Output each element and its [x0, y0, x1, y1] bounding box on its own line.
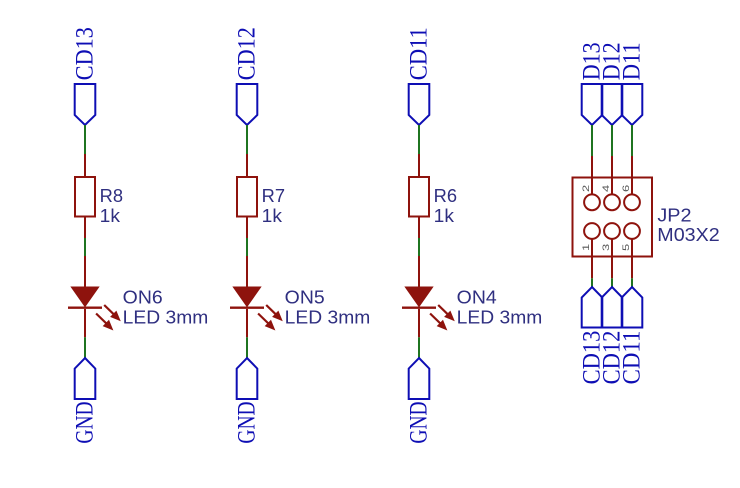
svg-text:JP2: JP2 — [657, 205, 691, 225]
LED ON4 light arrow 1 — [438, 305, 453, 320]
svg-text:1k: 1k — [434, 206, 455, 226]
pin wire ON4 anode — [418, 256, 420, 287]
GND flag (CD13 column) — [75, 358, 96, 399]
LED ON4 cathode bar — [402, 307, 436, 309]
pin wire R7 pin 1 — [246, 154, 248, 177]
wire net GND column CD12 — [246, 337, 248, 358]
pin wire R6 pin 1 — [418, 154, 420, 177]
resistor R7 — [237, 177, 257, 217]
wire net GND column CD11 — [418, 337, 420, 358]
resistor R8 — [75, 177, 95, 217]
svg-text:ON5: ON5 — [285, 288, 325, 308]
svg-text:D11: D11 — [619, 42, 646, 80]
svg-text:CD11: CD11 — [619, 331, 646, 385]
wire net CD12 (below JP2) — [611, 278, 613, 287]
LED ON4 light arrow 2 — [430, 314, 446, 330]
JP2 pin circle 5 — [624, 223, 640, 239]
svg-text:4: 4 — [601, 185, 612, 192]
svg-text:GND: GND — [233, 401, 260, 443]
pin wire JP2 pin 2 — [591, 156, 593, 195]
LED ON5 light arrow 1 — [266, 305, 281, 320]
connector JP2 outline — [573, 178, 653, 257]
pin wire JP2 pin 1 — [591, 239, 593, 278]
net flag D11 — [622, 84, 643, 125]
svg-text:M03X2: M03X2 — [657, 225, 719, 245]
wire net GND column CD13 — [84, 337, 86, 358]
svg-text:LED 3mm: LED 3mm — [457, 308, 543, 328]
JP2 pin circle 2 — [584, 194, 600, 210]
LED ON5 light arrow 2 — [258, 314, 274, 330]
JP2 pin circle 6 — [624, 194, 640, 210]
svg-text:R7: R7 — [262, 186, 285, 206]
pin wire ON6 anode — [84, 256, 86, 287]
GND flag (CD12 column) — [237, 358, 258, 399]
LED ON6 triangle — [71, 287, 98, 307]
pin wire ON5 cathode — [246, 309, 248, 337]
LED ON6 cathode bar — [68, 307, 102, 309]
net flag CD12 (bottom) — [602, 287, 623, 328]
pin wire JP2 pin 5 — [631, 239, 633, 278]
JP2 pin circle 3 — [604, 223, 620, 239]
svg-text:ON4: ON4 — [457, 288, 497, 308]
net flag CD13 (top) — [75, 84, 96, 125]
wire net CD11 to R6 — [418, 125, 420, 154]
pin wire JP2 pin 4 — [611, 156, 613, 195]
svg-text:5: 5 — [621, 244, 632, 251]
pin wire R6 pin 2 — [418, 217, 420, 239]
net flag D12 — [602, 84, 623, 125]
wire net CD13 (below JP2) — [591, 278, 593, 287]
pin wire JP2 pin 6 — [631, 156, 633, 195]
LED ON6 light arrow 1 — [104, 305, 119, 320]
svg-text:1k: 1k — [100, 206, 121, 226]
svg-text:ON6: ON6 — [123, 288, 163, 308]
wire net R7 to ON5 — [246, 238, 248, 256]
JP2 pin circle 4 — [604, 194, 620, 210]
wire net R8 to ON6 — [84, 238, 86, 256]
svg-text:GND: GND — [71, 401, 98, 443]
resistor R6 — [409, 177, 429, 217]
wire net CD12 to R7 — [246, 125, 248, 154]
svg-text:R8: R8 — [100, 186, 123, 206]
svg-text:1k: 1k — [262, 206, 283, 226]
svg-text:6: 6 — [621, 185, 632, 192]
svg-text:CD11: CD11 — [406, 27, 433, 80]
pin wire ON4 cathode — [418, 309, 420, 337]
wire net CD13 to R8 — [84, 125, 86, 154]
svg-text:3: 3 — [601, 244, 612, 251]
svg-text:CD13: CD13 — [72, 27, 99, 80]
LED ON5 triangle — [233, 287, 260, 307]
pin wire R8 pin 1 — [84, 154, 86, 177]
JP2 pin circle 1 — [584, 223, 600, 239]
net flag D13 — [582, 84, 603, 125]
wire net CD11 (below JP2) — [631, 278, 633, 287]
GND flag (CD11 column) — [409, 358, 430, 399]
net flag CD13 (bottom) — [582, 287, 603, 328]
svg-text:LED 3mm: LED 3mm — [285, 308, 371, 328]
net flag CD12 (top) — [237, 84, 258, 125]
wire net R6 to ON4 — [418, 238, 420, 256]
pin wire R7 pin 2 — [246, 217, 248, 239]
svg-text:1: 1 — [581, 244, 592, 251]
svg-text:LED 3mm: LED 3mm — [123, 308, 209, 328]
net flag CD11 (bottom) — [622, 287, 643, 328]
svg-text:2: 2 — [581, 185, 592, 192]
LED ON4 triangle — [405, 287, 432, 307]
wire net D11 — [631, 125, 633, 156]
LED ON5 cathode bar — [230, 307, 264, 309]
LED ON6 light arrow 2 — [96, 314, 112, 330]
wire net D12 — [611, 125, 613, 156]
svg-text:GND: GND — [405, 401, 432, 443]
pin wire R8 pin 2 — [84, 217, 86, 239]
svg-text:CD12: CD12 — [234, 27, 261, 80]
pin wire ON6 cathode — [84, 309, 86, 337]
pin wire JP2 pin 3 — [611, 239, 613, 278]
pin wire ON5 anode — [246, 256, 248, 287]
svg-text:R6: R6 — [434, 186, 457, 206]
wire net D13 — [591, 125, 593, 156]
net flag CD11 (top) — [409, 84, 430, 125]
